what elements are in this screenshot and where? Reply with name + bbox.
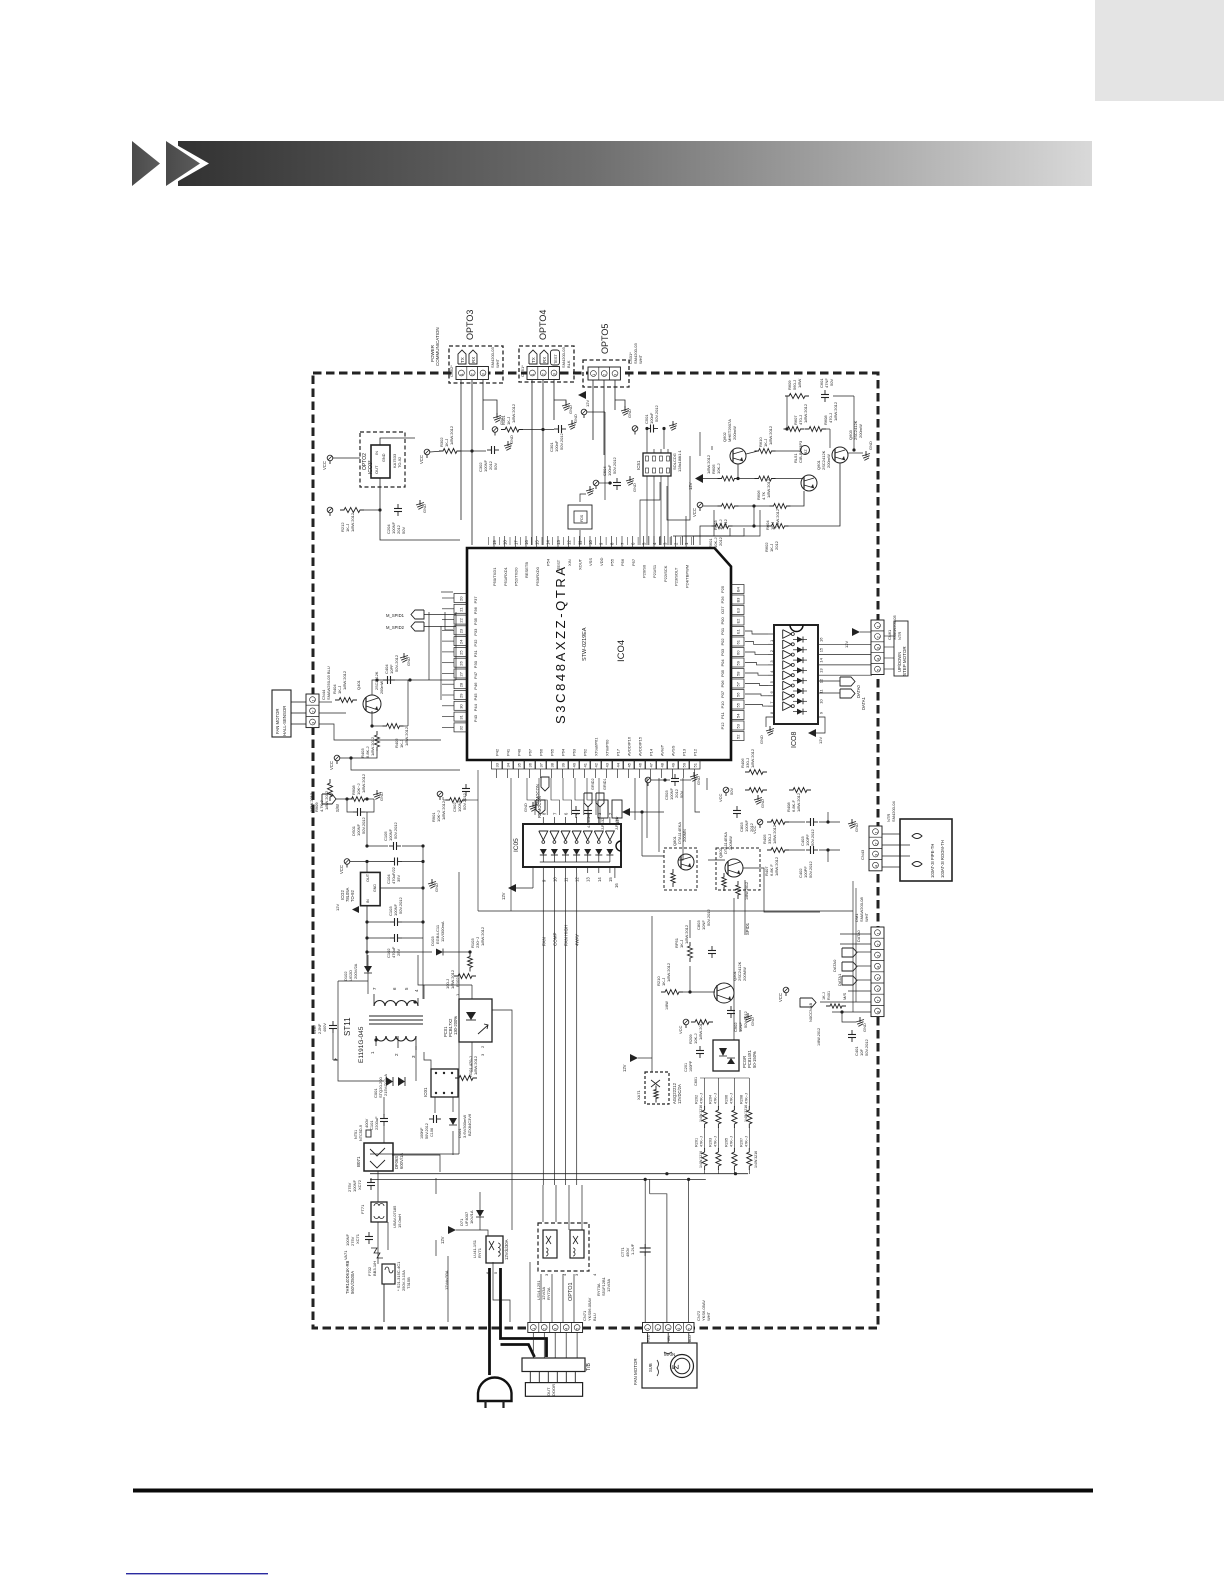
svg-text:16: 16 [524, 540, 529, 545]
svg-text:M_SPID1: M_SPID1 [386, 613, 405, 618]
svg-text:N0CCNAB: N0CCNAB [808, 1003, 813, 1022]
svg-text:B071: B071 [356, 1156, 361, 1167]
svg-text:11: 11 [577, 540, 582, 545]
svg-text:AVDD/P16: AVDD/P16 [627, 736, 632, 756]
svg-text:C201: C201 [684, 1063, 688, 1072]
svg-text:FAN HIGH: FAN HIGH [564, 925, 569, 946]
svg-text:VCC: VCC [678, 1025, 683, 1034]
svg-text:XIN: XIN [567, 559, 572, 566]
svg-text:XOUT: XOUT [578, 558, 583, 570]
svg-text:IC51: IC51 [636, 460, 641, 470]
svg-text:P02: P02 [720, 638, 725, 646]
svg-text:P46: P46 [473, 682, 478, 690]
svg-text:30: 30 [459, 704, 464, 709]
svg-text:560V/2500A: 560V/2500A [350, 1271, 355, 1294]
svg-text:C801: C801 [694, 1077, 698, 1086]
svg-text:15.0mH: 15.0mH [397, 1214, 402, 1228]
svg-text:50V.2012: 50V.2012 [654, 404, 659, 422]
svg-text:OPTO4: OPTO4 [538, 310, 548, 340]
svg-text:DATA1: DATA1 [861, 696, 866, 710]
svg-text:10K-J: 10K-J [716, 464, 721, 474]
svg-text:12V: 12V [844, 641, 849, 648]
svg-text:TO-92: TO-92 [397, 456, 402, 468]
svg-text:AVDD/P15: AVDD/P15 [638, 736, 643, 756]
svg-text:P45: P45 [473, 693, 478, 701]
svg-text:IN: IN [366, 899, 370, 903]
svg-text:36: 36 [528, 762, 533, 767]
svg-text:P66: P66 [539, 748, 544, 756]
svg-text:28: 28 [459, 682, 464, 687]
svg-text:21: 21 [459, 607, 464, 612]
svg-text:IC01: IC01 [423, 1087, 428, 1097]
svg-text:T315B: T315B [406, 1277, 411, 1289]
svg-text:200V/2A: 200V/2A [353, 963, 358, 979]
svg-text:50V: 50V [729, 788, 734, 795]
svg-text:GND: GND [760, 799, 765, 808]
svg-text:103AT-3I ROOM-TH: 103AT-3I ROOM-TH [940, 840, 945, 878]
svg-text:BZX84C3V6: BZX84C3V6 [467, 1113, 472, 1136]
svg-text:P03: P03 [720, 648, 725, 656]
svg-text:P67: P67 [528, 748, 533, 756]
svg-text:P33: P33 [473, 628, 478, 636]
svg-text:27: 27 [459, 671, 464, 676]
svg-text:NTC5D-9: NTC5D-9 [359, 1125, 363, 1141]
svg-text:200mW: 200mW [732, 426, 737, 440]
svg-text:1-2UF: 1-2UF [630, 1243, 635, 1255]
svg-text:RX: RX [542, 357, 547, 363]
svg-text:19: 19 [492, 540, 497, 545]
svg-text:1/8W.2012: 1/8W.2012 [774, 856, 779, 876]
svg-text:FAN: FAN [541, 937, 546, 946]
svg-text:12: 12 [819, 678, 824, 683]
svg-text:1/8W: 1/8W [797, 378, 802, 388]
svg-text:VDD: VDD [599, 557, 604, 566]
svg-text:1/8W.2012: 1/8W.2012 [698, 1020, 703, 1040]
svg-text:RY71: RY71 [477, 1247, 482, 1258]
svg-text:1/8W.2012: 1/8W.2012 [803, 403, 808, 423]
svg-text:2012: 2012 [718, 536, 723, 546]
svg-text:XC72: XC72 [357, 1179, 362, 1190]
svg-text:DATA1: DATA1 [837, 973, 842, 986]
svg-text:AVref*: AVref* [660, 744, 665, 756]
svg-text:GRID2: GRID2 [591, 778, 595, 790]
svg-text:GND: GND [854, 823, 859, 832]
svg-text:200mW: 200mW [380, 681, 384, 694]
svg-text:P52/TXD0: P52/TXD0 [514, 567, 519, 586]
svg-text:STW-0219EA: STW-0219EA [582, 627, 588, 661]
svg-text:P44: P44 [473, 703, 478, 711]
svg-text:ST11: ST11 [343, 1017, 352, 1036]
svg-text:DATA0: DATA0 [857, 930, 861, 942]
svg-text:T/B: T/B [586, 1363, 592, 1371]
svg-text:51: 51 [693, 762, 698, 767]
svg-text:1/8W.2012: 1/8W.2012 [817, 1028, 821, 1046]
svg-text:18: 18 [503, 540, 508, 545]
svg-text:GND: GND [406, 657, 411, 666]
svg-text:VCC: VCC [778, 993, 783, 1002]
svg-text:1/8W.2012: 1/8W.2012 [324, 790, 329, 810]
svg-text:17: 17 [513, 540, 518, 545]
svg-text:E1191G-045: E1191G-045 [358, 1026, 365, 1063]
svg-text:O27: O27 [720, 606, 725, 614]
svg-text:WHT: WHT [495, 358, 500, 368]
svg-text:P42: P42 [495, 748, 500, 756]
svg-text:P12: P12 [720, 722, 725, 730]
svg-text:130-200%: 130-200% [453, 1016, 458, 1035]
svg-text:R202: R202 [695, 1095, 699, 1104]
svg-text:1/8W: 1/8W [665, 1001, 669, 1010]
svg-text:BB3-1/H: BB3-1/H [372, 1261, 377, 1276]
svg-text:1/8W.2012: 1/8W.2012 [370, 736, 375, 756]
svg-text:1/8W.2012: 1/8W.2012 [473, 1055, 478, 1075]
svg-text:1/8W.2012: 1/8W.2012 [361, 773, 366, 793]
svg-text:P43: P43 [473, 714, 478, 722]
svg-text:E1: E1 [736, 628, 741, 634]
svg-text:50V.2012: 50V.2012 [462, 792, 467, 810]
svg-text:CN43: CN43 [860, 849, 865, 860]
svg-text:50: 50 [682, 762, 687, 767]
svg-text:OPTO1: OPTO1 [568, 1282, 574, 1301]
svg-text:12VDC/2A: 12VDC/2A [677, 1084, 682, 1104]
svg-text:DATA0: DATA0 [856, 684, 861, 698]
svg-text:P14: P14 [649, 748, 654, 756]
svg-text:59: 59 [736, 660, 741, 665]
svg-text:12Vdc/30A: 12Vdc/30A [504, 1239, 509, 1260]
svg-text:46: 46 [638, 762, 643, 767]
svg-text:GND: GND [759, 735, 764, 744]
svg-text:48: 48 [660, 762, 665, 767]
svg-text:STEP MOTOR: STEP MOTOR [902, 646, 907, 676]
svg-text:31: 31 [459, 714, 464, 719]
svg-text:23: 23 [459, 628, 464, 633]
svg-text:22: 22 [459, 617, 464, 622]
svg-text:P30: P30 [473, 660, 478, 668]
svg-text:P32: P32 [473, 639, 478, 647]
svg-text:IC05: IC05 [513, 838, 520, 852]
svg-text:CIB-B203P3: CIB-B203P3 [798, 440, 803, 463]
svg-text:TEST: TEST [556, 559, 561, 570]
svg-text:P56: P56 [620, 558, 625, 566]
svg-text:AVSS: AVSS [671, 745, 676, 756]
svg-text:RESETB: RESETB [524, 562, 529, 578]
svg-text:P40: P40 [517, 748, 522, 756]
svg-text:P57: P57 [631, 558, 636, 566]
svg-text:P31: P31 [473, 650, 478, 658]
svg-text:R208: R208 [739, 1095, 743, 1104]
svg-text:WHT: WHT [864, 912, 869, 922]
svg-text:16: 16 [819, 637, 824, 642]
svg-text:32: 32 [459, 725, 464, 730]
svg-text:200mW: 200mW [858, 424, 863, 438]
svg-text:1/8W.2012: 1/8W.2012 [750, 748, 755, 768]
svg-text:2012: 2012 [774, 540, 779, 550]
svg-text:P23/SOLT: P23/SOLT [674, 567, 679, 586]
svg-text:YEL: YEL [667, 1335, 671, 1342]
svg-text:GND: GND [868, 441, 873, 450]
svg-text:FDS: FDS [580, 514, 584, 522]
svg-text:35: 35 [517, 762, 522, 767]
svg-text:128x188i1:1: 128x188i1:1 [677, 449, 682, 472]
svg-text:15: 15 [819, 647, 824, 652]
svg-text:GND: GND [373, 884, 377, 892]
svg-text:15: 15 [535, 540, 540, 545]
svg-text:R207: R207 [739, 1138, 743, 1147]
svg-text:OPTO5: OPTO5 [600, 324, 610, 354]
svg-text:12V: 12V [615, 816, 620, 824]
svg-text:20: 20 [459, 596, 464, 601]
svg-text:GND: GND [627, 409, 632, 418]
svg-text:13: 13 [819, 668, 824, 673]
svg-text:NTR: NTR [897, 632, 902, 640]
svg-text:R201: R201 [695, 1138, 699, 1147]
svg-text:P63: P63 [572, 748, 577, 756]
svg-text:R401: R401 [827, 991, 831, 1000]
svg-text:P53/RXD0: P53/RXD0 [535, 566, 540, 586]
svg-text:4WAY: 4WAY [575, 934, 580, 946]
svg-text:P54: P54 [546, 558, 551, 566]
svg-text:P00: P00 [720, 617, 725, 625]
svg-text:400V: 400V [323, 1023, 327, 1032]
svg-text:XTout/P61: XTout/P61 [594, 737, 599, 756]
svg-text:GND: GND [750, 1017, 755, 1026]
svg-text:47K~J: 47K~J [744, 1136, 748, 1147]
svg-text:24: 24 [459, 639, 464, 644]
svg-text:P50/TXD1: P50/TXD1 [492, 567, 497, 586]
svg-text:*: * [334, 1057, 337, 1066]
svg-text:CN52*: CN52* [449, 365, 454, 377]
svg-text:E2: E2 [736, 618, 741, 624]
svg-text:FAN MOTOR: FAN MOTOR [633, 1358, 638, 1385]
svg-text:P21/S1: P21/S1 [652, 564, 657, 578]
svg-text:10: 10 [552, 877, 557, 882]
svg-text:WHT: WHT [638, 354, 643, 364]
svg-text:12V: 12V [622, 1064, 627, 1072]
svg-text:P13: P13 [682, 748, 687, 756]
svg-text:P64: P64 [561, 748, 566, 756]
svg-text:GND: GND [523, 803, 528, 812]
svg-text:34: 34 [506, 762, 511, 767]
svg-text:P17: P17 [616, 748, 621, 756]
svg-text:1/4W.3216: 1/4W.3216 [699, 1105, 703, 1122]
svg-text:1/8W.2012: 1/8W.2012 [350, 512, 355, 532]
svg-text:GND: GND [509, 435, 514, 444]
svg-text:44: 44 [616, 762, 621, 767]
svg-text:1/8W.2012: 1/8W.2012 [666, 962, 671, 982]
svg-text:43: 43 [605, 762, 610, 767]
svg-text:200mW: 200mW [826, 454, 831, 468]
svg-text:R204: R204 [708, 1095, 712, 1104]
svg-text:GRID1: GRID1 [603, 778, 607, 790]
svg-text:GND: GND [379, 792, 384, 801]
svg-text:M_SPID2: M_SPID2 [386, 625, 405, 630]
svg-text:NT51: NT51 [354, 1130, 358, 1139]
svg-text:1/8W.2012: 1/8W.2012 [441, 800, 446, 820]
svg-text:13: 13 [556, 540, 561, 545]
svg-text:VCC: VCC [718, 793, 723, 802]
svg-text:35V: 35V [396, 875, 401, 882]
svg-text:P26: P26 [720, 596, 725, 604]
svg-text:P36: P36 [473, 606, 478, 614]
svg-text:1/8W.2012: 1/8W.2012 [706, 454, 711, 474]
svg-text:P25: P25 [720, 585, 725, 593]
svg-text:50V: 50V [829, 379, 834, 386]
svg-text:12: 12 [575, 877, 580, 882]
svg-text:P10: P10 [720, 701, 725, 709]
svg-text:2200uF: 2200uF [374, 1116, 379, 1130]
svg-text:GND: GND [568, 405, 573, 414]
svg-text:P55: P55 [610, 558, 615, 566]
svg-text:F702: F702 [367, 1266, 372, 1276]
svg-text:BLU: BLU [688, 1335, 692, 1342]
svg-text:1K-J: 1K-J [822, 992, 826, 1000]
svg-text:12V: 12V [688, 482, 693, 490]
svg-text:GND: GND [573, 414, 578, 423]
svg-text:XC71: XC71 [355, 1233, 360, 1244]
svg-text:P22/SCK: P22/SCK [663, 565, 668, 582]
svg-text:52: 52 [736, 734, 741, 739]
svg-text:50-150%: 50-150% [752, 1051, 757, 1068]
svg-text:RX: RX [471, 357, 476, 363]
svg-text:1/8W.2012: 1/8W.2012 [684, 924, 689, 944]
svg-text:12V: 12V [501, 892, 506, 900]
svg-text:BLU: BLU [592, 1313, 597, 1321]
svg-text:50V-2012: 50V-2012 [394, 654, 399, 672]
svg-text:CN51*: CN51* [520, 365, 525, 377]
svg-text:ICO3*: ICO3* [368, 460, 374, 474]
svg-text:11V/300mA: 11V/300mA [440, 921, 445, 942]
svg-text:P04: P04 [720, 659, 725, 667]
svg-text:50V: 50V [493, 463, 498, 470]
svg-text:1/8W.2012: 1/8W.2012 [768, 425, 773, 445]
svg-text:P20/S0: P20/S0 [642, 564, 647, 578]
svg-text:R205: R205 [724, 1138, 728, 1147]
svg-text:103AT-3I PIPE-TH: 103AT-3I PIPE-TH [930, 844, 935, 878]
svg-text:OUT: OUT [366, 873, 370, 882]
svg-text:DATA0: DATA0 [832, 959, 837, 972]
svg-text:VA71: VA71 [343, 1250, 348, 1260]
svg-text:33: 33 [495, 762, 500, 767]
svg-text:COMMUNICATION: COMMUNICATION [435, 327, 440, 366]
svg-text:58: 58 [736, 671, 741, 676]
svg-text:P37: P37 [473, 596, 478, 604]
svg-text:40: 40 [572, 762, 577, 767]
svg-text:FT71: FT71 [360, 1204, 365, 1214]
svg-text:1/8W.2012: 1/8W.2012 [480, 926, 485, 946]
svg-text:Σ: Σ [672, 1365, 681, 1370]
svg-text:RY72A: RY72A [546, 1287, 551, 1300]
svg-text:P05: P05 [720, 669, 725, 677]
svg-text:12V: 12V [335, 904, 340, 911]
svg-text:100NF: 100NF [420, 1127, 424, 1139]
svg-text:XTin/P60: XTin/P60 [605, 739, 610, 756]
svg-text:14: 14 [597, 877, 602, 882]
svg-text:1/4W.3216: 1/4W.3216 [699, 1151, 703, 1168]
svg-text:R206: R206 [724, 1095, 728, 1104]
svg-text:54: 54 [736, 713, 741, 718]
svg-text:LU41-1S1: LU41-1S1 [472, 1239, 477, 1258]
svg-text:1/8W.2012: 1/8W.2012 [309, 792, 314, 812]
svg-text:39: 39 [561, 762, 566, 767]
svg-text:400V: 400V [364, 1118, 369, 1128]
svg-text:47K~J: 47K~J [729, 1136, 733, 1147]
svg-text:41: 41 [583, 762, 588, 767]
svg-text:1/8W.2012: 1/8W.2012 [511, 403, 516, 423]
svg-text:P47: P47 [473, 671, 478, 679]
svg-text:VCC: VCC [752, 825, 757, 834]
svg-text:GND: GND [862, 1023, 867, 1032]
svg-text:1/4W.3216: 1/4W.3216 [744, 1105, 748, 1122]
svg-text:10: 10 [819, 699, 824, 704]
svg-text:1/8W.2012: 1/8W.2012 [766, 478, 771, 498]
svg-text:12V/3A: 12V/3A [606, 1279, 611, 1292]
svg-text:1/8W.2012: 1/8W.2012 [342, 670, 347, 690]
svg-text:VSS: VSS [588, 558, 593, 566]
svg-text:DOOR: DOOR [551, 1384, 556, 1396]
svg-text:26: 26 [459, 660, 464, 665]
svg-text:57: 57 [736, 681, 741, 686]
svg-text:GND: GND [434, 883, 439, 892]
svg-text:E3: E3 [736, 607, 741, 613]
svg-text:WHT: WHT [706, 1311, 711, 1321]
svg-text:SUB: SUB [648, 1363, 653, 1372]
svg-text:13: 13 [586, 877, 591, 882]
svg-text:25: 25 [459, 650, 464, 655]
svg-text:P62: P62 [583, 748, 588, 756]
svg-text:VCC: VCC [329, 761, 334, 770]
svg-text:215V/200uA: 215V/200uA [383, 1074, 388, 1096]
svg-text:GND: GND [696, 776, 701, 785]
svg-text:2.2NF: 2.2NF [318, 1023, 322, 1034]
svg-text:38: 38 [550, 762, 555, 767]
svg-text:S3C848AXZZ-QTRA: S3C848AXZZ-QTRA [553, 564, 568, 724]
svg-text:P06: P06 [720, 680, 725, 688]
svg-text:TO-92: TO-92 [350, 890, 355, 902]
svg-text:1/8W.2012: 1/8W.2012 [404, 726, 409, 746]
svg-text:37: 37 [539, 762, 544, 767]
svg-text:200MW: 200MW [742, 967, 747, 981]
svg-text:45: 45 [627, 762, 632, 767]
svg-text:42: 42 [594, 762, 599, 767]
svg-text:P07: P07 [720, 690, 725, 698]
svg-text:56: 56 [736, 692, 741, 697]
svg-text:47K~J: 47K~J [700, 1136, 704, 1147]
svg-text:1/8W.2012: 1/8W.2012 [833, 401, 838, 421]
svg-text:1/8W.2012: 1/8W.2012 [772, 824, 777, 844]
svg-text:50V.2012: 50V.2012 [361, 816, 366, 834]
svg-text:50V.2012: 50V.2012 [864, 1038, 869, 1056]
svg-text:53: 53 [736, 723, 741, 728]
svg-text:XA71: XA71 [636, 1089, 641, 1100]
svg-text:1/8W.2012: 1/8W.2012 [745, 882, 749, 900]
svg-text:P01: P01 [720, 627, 725, 635]
svg-text:47K~J: 47K~J [713, 1136, 717, 1147]
svg-text:50V.2012: 50V.2012 [810, 828, 815, 846]
svg-text:47K~J: 47K~J [713, 1093, 717, 1104]
svg-text:12V: 12V [585, 400, 590, 407]
svg-text:50V: 50V [401, 527, 406, 534]
svg-text:FAN MOTOR: FAN MOTOR [275, 709, 280, 734]
svg-text:Q401: Q401 [356, 679, 361, 690]
svg-text:B3: B3 [736, 597, 741, 603]
svg-text:50V.2012: 50V.2012 [398, 896, 403, 914]
svg-text:100PF: 100PF [689, 1060, 693, 1072]
svg-text:50V.2012: 50V.2012 [425, 1123, 429, 1139]
svg-text:TX: TX [531, 357, 536, 363]
svg-text:50V.2012: 50V.2012 [393, 821, 398, 839]
svg-text:12: 12 [567, 540, 572, 545]
svg-text:GND: GND [632, 483, 637, 492]
svg-text:10: 10 [588, 540, 593, 545]
